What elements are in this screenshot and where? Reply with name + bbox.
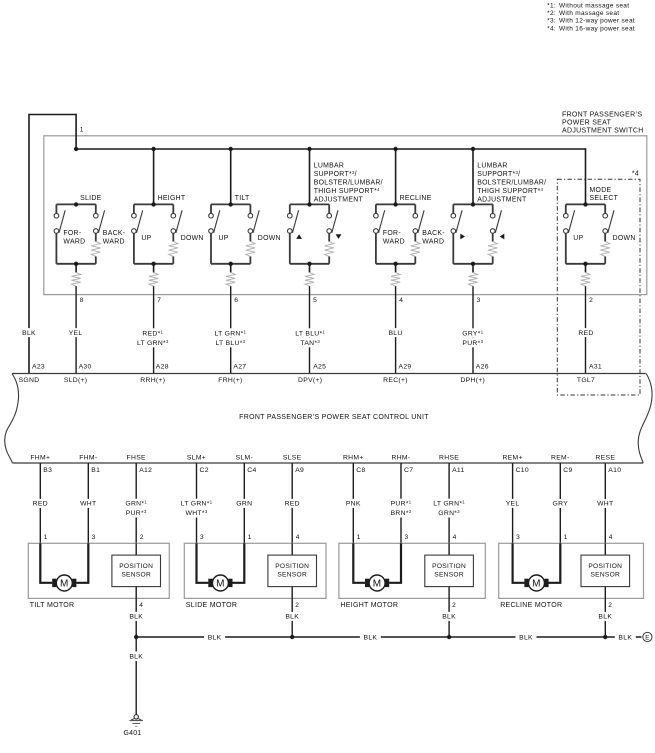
- svg-text:DPV(+): DPV(+): [298, 377, 322, 384]
- svg-text:LT GRN*3: LT GRN*3: [137, 339, 169, 347]
- motor TILT MOTOR wiring: [40, 543, 52, 583]
- svg-text:A26: A26: [476, 364, 489, 371]
- svg-text:2: 2: [589, 297, 593, 304]
- position sensor box: [135, 543, 137, 555]
- svg-text:RECLINE MOTOR: RECLINE MOTOR: [500, 602, 562, 609]
- svg-text:TGL7: TGL7: [577, 377, 595, 384]
- svg-text:RED: RED: [578, 330, 593, 337]
- svg-text:BLK: BLK: [598, 614, 612, 621]
- svg-text:TILT MOTOR: TILT MOTOR: [30, 602, 75, 609]
- svg-text:B3: B3: [43, 467, 52, 474]
- bus junction: [134, 635, 138, 639]
- svg-text:3: 3: [477, 297, 481, 304]
- sensor ground wire: [604, 587, 606, 637]
- svg-text:ADJUSTMENT: ADJUSTMENT: [314, 197, 364, 204]
- svg-text:POSITION: POSITION: [432, 563, 466, 570]
- svg-text:RHM-: RHM-: [392, 455, 411, 462]
- wire RESE to motor: [604, 463, 606, 543]
- svg-text:REM-: REM-: [551, 455, 570, 462]
- svg-text:BLK: BLK: [129, 654, 143, 661]
- control unit top edge: [12, 373, 646, 375]
- svg-text:BRN*3: BRN*3: [391, 509, 412, 517]
- svg-text:BLK: BLK: [208, 634, 222, 641]
- svg-text:FHM+: FHM+: [30, 455, 50, 462]
- ground bus wire: [136, 636, 641, 638]
- svg-text:With 12-way power seat: With 12-way power seat: [559, 18, 635, 25]
- svg-text:FHM-: FHM-: [79, 455, 97, 462]
- motor HEIGHT MOTOR wiring: [353, 543, 365, 583]
- svg-text:SUPPORT*3/: SUPPORT*3/: [314, 170, 357, 178]
- wire label BLK: [595, 612, 615, 621]
- svg-text:BACK-: BACK-: [103, 230, 126, 237]
- svg-text:HEIGHT MOTOR: HEIGHT MOTOR: [340, 602, 398, 609]
- svg-text:*4: *4: [632, 170, 639, 177]
- svg-text:DOWN: DOWN: [258, 235, 281, 242]
- svg-text:A29: A29: [399, 364, 412, 371]
- wire RHM- to motor: [400, 463, 402, 543]
- svg-text:With 16-way power seat: With 16-way power seat: [559, 25, 635, 32]
- motor symbol M: [52, 579, 56, 587]
- svg-text:WARD: WARD: [422, 238, 444, 245]
- svg-text:G401: G401: [123, 730, 141, 737]
- wire label BLK: [439, 612, 459, 621]
- svg-text:*4:: *4:: [547, 25, 556, 32]
- svg-text:A12: A12: [139, 467, 152, 474]
- wire RHM+ to motor: [352, 463, 354, 543]
- svg-text:SGND: SGND: [19, 377, 40, 384]
- svg-text:C8: C8: [356, 467, 365, 474]
- motor SLIDE MOTOR wiring: [197, 543, 209, 583]
- ground symbol G401: [134, 715, 138, 719]
- svg-text:POSITION: POSITION: [119, 563, 153, 570]
- svg-text:B1: B1: [91, 467, 100, 474]
- svg-text:YEL: YEL: [506, 501, 520, 508]
- svg-text:MODE: MODE: [590, 187, 612, 194]
- svg-text:A10: A10: [608, 467, 621, 474]
- svg-text:FRONT PASSENGER’S POWER SEAT C: FRONT PASSENGER’S POWER SEAT CONTROL UNI…: [239, 414, 429, 421]
- wire RHSE to motor: [448, 463, 450, 543]
- wire FHSE to motor: [135, 463, 137, 543]
- svg-text:GRN*3: GRN*3: [438, 509, 460, 517]
- svg-text:E: E: [645, 635, 649, 641]
- svg-text:A27: A27: [233, 364, 246, 371]
- switch SLIDE: [74, 147, 78, 151]
- svg-text:PUR*3: PUR*3: [126, 509, 147, 517]
- svg-text:RHSE: RHSE: [439, 455, 459, 462]
- wire label WHT: [590, 499, 620, 508]
- svg-text:BLU: BLU: [388, 330, 402, 337]
- bus label BLK: [615, 632, 636, 642]
- svg-text:BOLSTER/LUMBAR/: BOLSTER/LUMBAR/: [477, 180, 546, 187]
- svg-text:5: 5: [313, 297, 317, 304]
- wire label YEL: [61, 328, 91, 337]
- switch HEIGHT: [153, 149, 155, 204]
- wire SLSE to motor: [291, 463, 293, 543]
- svg-text:2: 2: [608, 602, 612, 609]
- box: RECLINE MOTOR: [499, 543, 644, 598]
- ground wire to G401: [135, 637, 137, 715]
- svg-text:A28: A28: [156, 364, 169, 371]
- wire label LT GRN*{1}: [208, 328, 252, 337]
- wire FHM- to motor: [87, 463, 89, 543]
- wire SLM+ to motor: [196, 463, 198, 543]
- wire label GRY*{1}: [451, 328, 495, 337]
- wire label BLK: [14, 328, 44, 337]
- svg-text:RED: RED: [285, 501, 300, 508]
- svg-text:Without massage seat: Without massage seat: [559, 3, 629, 10]
- svg-text:4: 4: [399, 297, 403, 304]
- wire label LT GRN*{1}: [427, 499, 471, 508]
- wire label GRN: [229, 499, 259, 508]
- svg-text:DPH(+): DPH(+): [460, 377, 485, 384]
- wire: BLK from SGND A23 up over to switch pin 1: [29, 115, 76, 374]
- wire label PNK: [338, 499, 368, 508]
- svg-text:THIGH SUPPORT*4: THIGH SUPPORT*4: [314, 187, 380, 195]
- switch MODE: [566, 203, 605, 205]
- svg-text:2: 2: [452, 602, 456, 609]
- svg-text:7: 7: [157, 297, 161, 304]
- wire drop to mode select switch: [585, 148, 587, 204]
- svg-text:SUPPORT*3/: SUPPORT*3/: [477, 170, 520, 178]
- wire label WHT: [73, 499, 103, 508]
- control unit bottom edge: [13, 462, 644, 464]
- svg-text:WHT: WHT: [597, 501, 613, 508]
- svg-text:SLD(+): SLD(+): [64, 377, 88, 384]
- svg-text:FOR-: FOR-: [63, 230, 81, 237]
- svg-text:RECLINE: RECLINE: [400, 195, 432, 202]
- motor symbol M: [208, 579, 212, 587]
- svg-text:6: 6: [234, 297, 238, 304]
- wire label RED*{1}: [131, 328, 175, 337]
- svg-text:LT GRN*1: LT GRN*1: [215, 329, 247, 337]
- wire label RED: [277, 499, 307, 508]
- svg-text:POWER SEAT: POWER SEAT: [562, 120, 612, 127]
- svg-text:RRH(+): RRH(+): [140, 377, 165, 384]
- svg-text:TILT: TILT: [235, 195, 250, 202]
- svg-text:BLK: BLK: [618, 634, 632, 641]
- svg-text:WARD: WARD: [383, 238, 405, 245]
- svg-text:A30: A30: [79, 364, 92, 371]
- svg-text:C9: C9: [563, 467, 572, 474]
- svg-text:UP: UP: [219, 235, 229, 242]
- wire label GRY: [545, 499, 575, 508]
- svg-text:SLM-: SLM-: [236, 455, 253, 462]
- wire label GRN*{1}: [114, 499, 158, 508]
- svg-text:ADJUSTMENT SWITCH: ADJUSTMENT SWITCH: [562, 127, 644, 134]
- control unit torn left edge: [5, 374, 19, 464]
- svg-text:A25: A25: [313, 364, 326, 371]
- svg-text:REC(+): REC(+): [383, 377, 408, 384]
- svg-text:LUMBAR: LUMBAR: [477, 163, 508, 170]
- svg-text:C2: C2: [200, 467, 209, 474]
- wire label BLU: [381, 328, 411, 337]
- svg-text:SENSOR: SENSOR: [434, 572, 464, 579]
- position sensor box: [604, 543, 606, 555]
- svg-text:LT BLU*3: LT BLU*3: [215, 339, 245, 347]
- box: TILT MOTOR: [28, 543, 169, 598]
- svg-text:ADJUSTMENT: ADJUSTMENT: [477, 197, 527, 204]
- wire label RED: [25, 499, 55, 508]
- svg-text:*3:: *3:: [547, 18, 556, 25]
- bus junction: [290, 635, 294, 639]
- connector E: [643, 632, 652, 641]
- svg-text:LT BLU*1: LT BLU*1: [295, 329, 325, 337]
- svg-text:RED: RED: [33, 501, 48, 508]
- svg-text:LT GRN*1: LT GRN*1: [433, 500, 465, 508]
- sensor ground wire: [448, 587, 450, 637]
- svg-text:A23: A23: [32, 364, 45, 371]
- svg-text:C4: C4: [247, 467, 256, 474]
- bus junction: [603, 635, 607, 639]
- bus label BLK: [516, 632, 537, 642]
- svg-text:PUR*1: PUR*1: [391, 500, 412, 508]
- svg-text:PNK: PNK: [346, 501, 361, 508]
- svg-text:SELECT: SELECT: [590, 195, 619, 202]
- svg-text:GRY*1: GRY*1: [462, 329, 483, 337]
- svg-text:UP: UP: [141, 235, 151, 242]
- box: SLIDE MOTOR: [184, 543, 326, 598]
- svg-text:FHSE: FHSE: [127, 455, 146, 462]
- svg-text:*1:: *1:: [547, 3, 556, 10]
- svg-text:GRY: GRY: [553, 501, 569, 508]
- svg-text:1: 1: [80, 127, 84, 134]
- svg-text:3: 3: [200, 534, 204, 541]
- svg-text:SLIDE MOTOR: SLIDE MOTOR: [186, 602, 237, 609]
- svg-text:YEL: YEL: [69, 330, 83, 337]
- svg-text:RESE: RESE: [595, 455, 615, 462]
- wire label PUR*{1}: [379, 499, 423, 508]
- svg-text:SLM+: SLM+: [187, 455, 206, 462]
- svg-text:RHM+: RHM+: [343, 455, 364, 462]
- svg-text:DOWN: DOWN: [613, 235, 636, 242]
- svg-text:3: 3: [92, 534, 96, 541]
- svg-text:*2:: *2:: [547, 10, 556, 17]
- wire label BLK: [126, 612, 146, 621]
- motor RECLINE MOTOR wiring: [513, 543, 525, 583]
- switch LUMBAR: [472, 149, 474, 204]
- svg-text:SENSOR: SENSOR: [590, 572, 620, 579]
- svg-text:POSITION: POSITION: [275, 563, 309, 570]
- svg-text:GRN*1: GRN*1: [125, 500, 147, 508]
- svg-text:BACK-: BACK-: [422, 230, 445, 237]
- svg-text:4: 4: [609, 534, 613, 541]
- svg-text:THIGH SUPPORT*4: THIGH SUPPORT*4: [477, 187, 543, 195]
- control unit torn right edge: [638, 374, 652, 464]
- wire label RED: [571, 328, 601, 337]
- svg-text:FRH(+): FRH(+): [218, 377, 242, 384]
- box: HEIGHT MOTOR: [339, 543, 485, 598]
- wire label LT BLU*{1}: [288, 328, 332, 337]
- svg-text:BLK: BLK: [22, 330, 36, 337]
- svg-text:TAN*3: TAN*3: [300, 339, 320, 347]
- svg-text:BLK: BLK: [129, 614, 143, 621]
- svg-text:2: 2: [295, 602, 299, 609]
- svg-text:3: 3: [405, 534, 409, 541]
- svg-text:WHT*3: WHT*3: [186, 509, 208, 517]
- svg-text:BLK: BLK: [519, 634, 533, 641]
- svg-text:A31: A31: [589, 364, 602, 371]
- svg-text:FRONT PASSENGER’S: FRONT PASSENGER’S: [562, 112, 642, 119]
- svg-text:A11: A11: [452, 467, 465, 474]
- wire SLM- to motor: [243, 463, 245, 543]
- svg-text:WARD: WARD: [103, 238, 125, 245]
- svg-text:8: 8: [80, 297, 84, 304]
- wire FHM+ to motor: [39, 463, 41, 543]
- svg-text:BOLSTER/LUMBAR/: BOLSTER/LUMBAR/: [314, 180, 383, 187]
- svg-text:1: 1: [248, 534, 252, 541]
- svg-text:4: 4: [139, 602, 143, 609]
- svg-text:4: 4: [453, 534, 457, 541]
- svg-text:2: 2: [140, 534, 144, 541]
- svg-text:LT GRN*1: LT GRN*1: [181, 500, 213, 508]
- position sensor box: [448, 543, 450, 555]
- switch TILT: [230, 149, 232, 204]
- svg-text:LUMBAR: LUMBAR: [314, 163, 345, 170]
- motor symbol M: [524, 579, 528, 587]
- svg-text:1: 1: [564, 534, 568, 541]
- wire label BLK: [126, 652, 146, 662]
- svg-text:M: M: [373, 579, 382, 590]
- dashed box *4 mode select region: [557, 179, 640, 395]
- svg-text:M: M: [216, 579, 225, 590]
- svg-text:GRN: GRN: [236, 501, 252, 508]
- sensor ground wire: [291, 587, 293, 637]
- svg-text:BLK: BLK: [442, 614, 456, 621]
- svg-text:C7: C7: [404, 467, 413, 474]
- svg-text:M: M: [532, 579, 541, 590]
- svg-text:RED*1: RED*1: [142, 329, 163, 337]
- svg-text:M: M: [60, 579, 69, 590]
- motor symbol M: [365, 579, 369, 587]
- svg-text:DOWN: DOWN: [181, 235, 204, 242]
- wire label LT GRN*{1}: [175, 499, 219, 508]
- bus wire inside switch: [76, 148, 585, 150]
- svg-text:A9: A9: [295, 467, 304, 474]
- svg-text:BLK: BLK: [285, 614, 299, 621]
- wire REM+ to motor: [512, 463, 514, 543]
- svg-text:SLSE: SLSE: [283, 455, 302, 462]
- bus label BLK: [204, 632, 225, 642]
- svg-text:SENSOR: SENSOR: [121, 572, 151, 579]
- svg-text:With massage seat: With massage seat: [559, 10, 619, 17]
- svg-text:POSITION: POSITION: [588, 563, 622, 570]
- wire label BLK: [282, 612, 302, 621]
- svg-text:WARD: WARD: [63, 238, 85, 245]
- svg-text:1: 1: [44, 534, 48, 541]
- svg-text:UP: UP: [573, 235, 583, 242]
- svg-text:BLK: BLK: [364, 634, 378, 641]
- svg-text:REM+: REM+: [502, 455, 522, 462]
- svg-text:4: 4: [296, 534, 300, 541]
- svg-text:PUR*3: PUR*3: [462, 339, 483, 347]
- position sensor box: [291, 543, 293, 555]
- svg-text:HEIGHT: HEIGHT: [158, 195, 186, 202]
- sensor ground wire: [135, 587, 137, 637]
- box: power seat adjustment switch: [44, 136, 647, 295]
- wire label YEL: [498, 499, 528, 508]
- svg-text:1: 1: [357, 534, 361, 541]
- switch LUMBAR: [309, 149, 311, 204]
- switch RECLINE: [395, 149, 397, 204]
- svg-text:SLIDE: SLIDE: [80, 195, 102, 202]
- svg-text:C10: C10: [516, 467, 529, 474]
- svg-text:SENSOR: SENSOR: [277, 572, 307, 579]
- bus junction: [447, 635, 451, 639]
- svg-text:3: 3: [516, 534, 520, 541]
- wire REM- to motor: [559, 463, 561, 543]
- svg-text:WHT: WHT: [80, 501, 96, 508]
- svg-text:FOR-: FOR-: [383, 230, 401, 237]
- bus label BLK: [360, 632, 381, 642]
